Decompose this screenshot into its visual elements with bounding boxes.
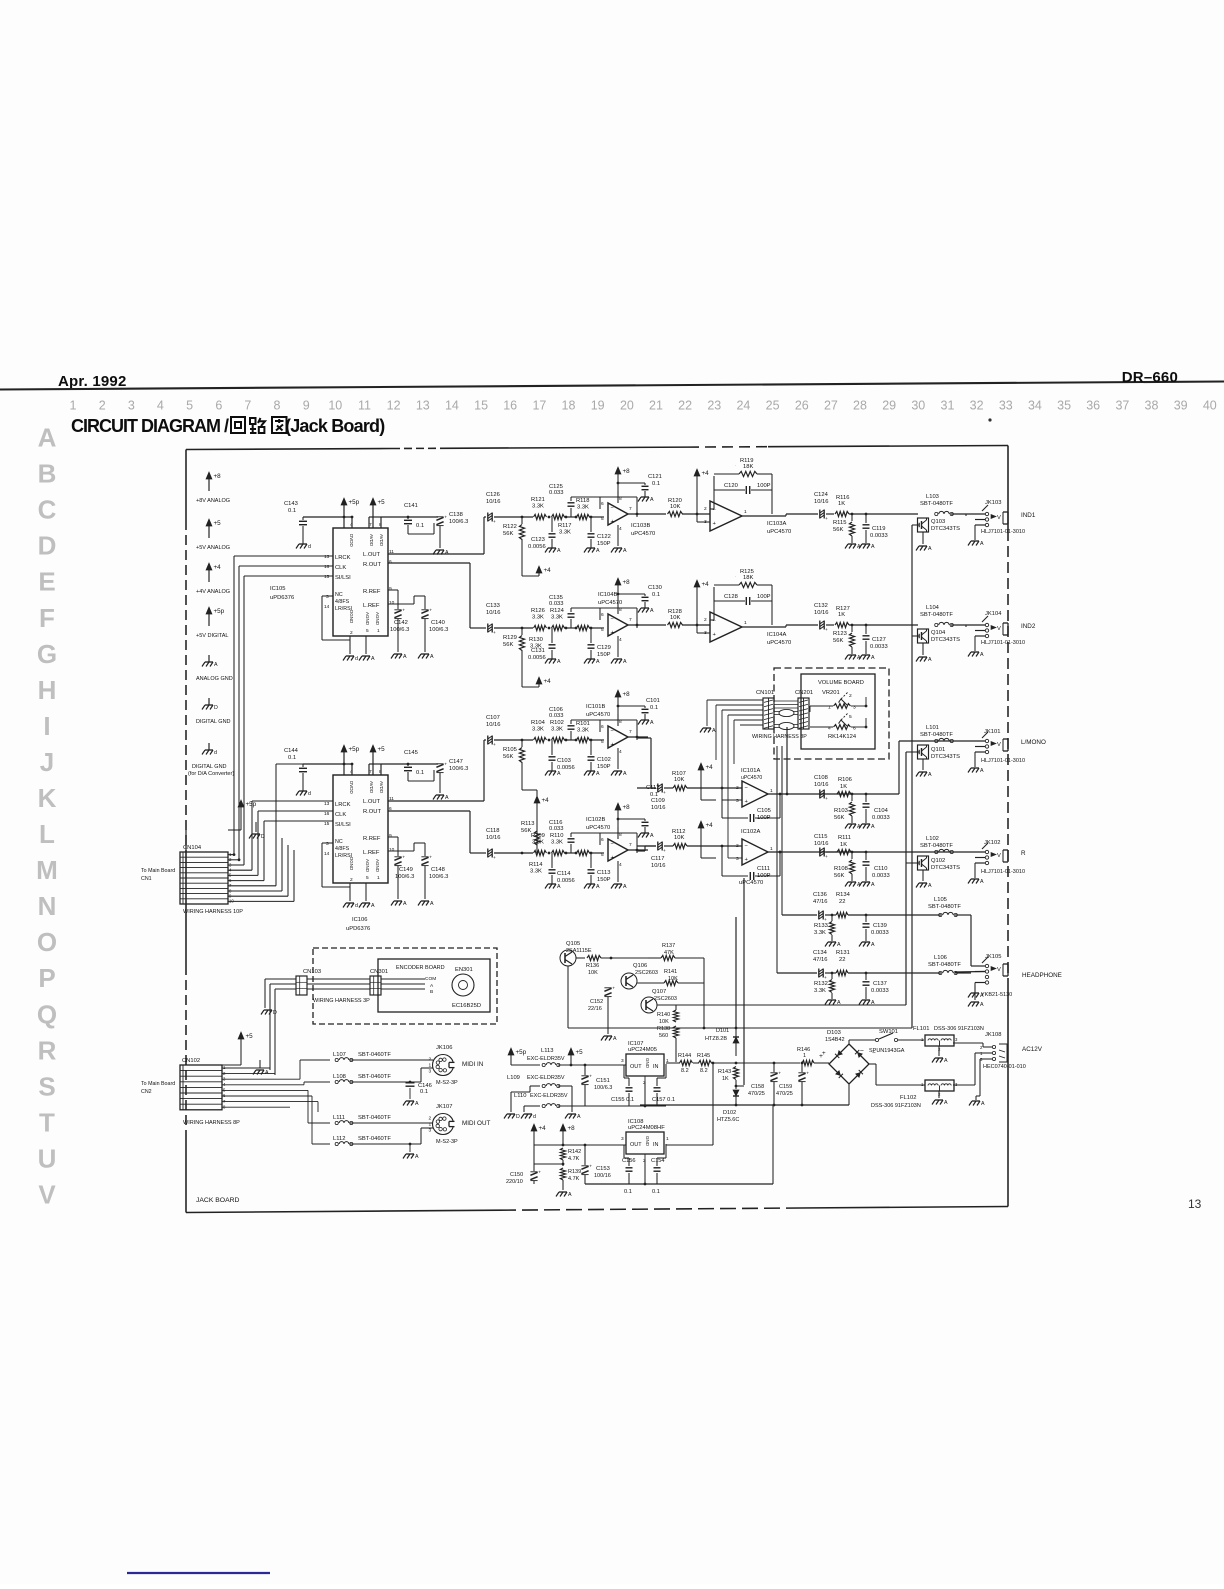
svg-text:A: A xyxy=(650,497,654,503)
svg-text:C157 0.1: C157 0.1 xyxy=(652,1097,675,1103)
svg-text:0.1: 0.1 xyxy=(416,770,424,776)
svg-text:L.REF: L.REF xyxy=(363,603,380,609)
svg-text:10K: 10K xyxy=(670,504,680,510)
svg-text:21: 21 xyxy=(649,399,663,413)
svg-text:d: d xyxy=(355,656,358,662)
svg-text:C141: C141 xyxy=(404,503,418,509)
svg-text:C: C xyxy=(38,495,57,525)
svg-text:C129: C129 xyxy=(597,645,611,651)
svg-text:0.0033: 0.0033 xyxy=(870,533,888,539)
svg-text:47K: 47K xyxy=(664,950,674,956)
svg-text:Q107: Q107 xyxy=(652,989,666,995)
svg-text:O: O xyxy=(37,927,57,957)
svg-text:A: A xyxy=(871,882,875,888)
svg-text:CLK: CLK xyxy=(335,812,346,818)
svg-text:EC16B25D: EC16B25D xyxy=(452,1003,481,1009)
svg-text:+4: +4 xyxy=(702,470,710,477)
svg-text:AGND: AGND xyxy=(375,859,380,873)
svg-text:+: + xyxy=(493,743,496,748)
svg-text:A: A xyxy=(712,728,716,734)
svg-text:EXC-ELDR35V: EXC-ELDR35V xyxy=(527,1056,565,1062)
svg-text:C103: C103 xyxy=(557,758,571,764)
svg-text:+4: +4 xyxy=(544,567,552,574)
svg-text:DGND: DGND xyxy=(349,610,354,624)
svg-text:IC102B: IC102B xyxy=(586,817,605,823)
svg-text:+5: +5 xyxy=(576,1049,584,1056)
svg-text:2: 2 xyxy=(350,877,353,883)
svg-text:R131: R131 xyxy=(836,950,850,956)
svg-text:23: 23 xyxy=(707,399,721,413)
svg-text:IC104A: IC104A xyxy=(767,632,786,638)
svg-text:18K: 18K xyxy=(743,575,753,581)
svg-text:2: 2 xyxy=(99,399,106,413)
svg-text:6: 6 xyxy=(853,726,856,732)
svg-text:A: A xyxy=(430,654,434,660)
svg-text:C153: C153 xyxy=(596,1166,610,1172)
svg-text:100/6.3: 100/6.3 xyxy=(429,627,448,633)
svg-text:A: A xyxy=(596,548,600,554)
svg-text:A: A xyxy=(623,548,627,554)
svg-text:CIRCUIT DIAGRAM /: CIRCUIT DIAGRAM / xyxy=(71,416,229,436)
svg-text:13: 13 xyxy=(416,399,430,413)
svg-text:7: 7 xyxy=(629,842,632,848)
svg-text:L113: L113 xyxy=(541,1048,553,1054)
svg-text:L106: L106 xyxy=(934,955,947,961)
svg-text:8: 8 xyxy=(619,832,622,838)
svg-text:+5: +5 xyxy=(246,1033,254,1040)
svg-text:+: + xyxy=(825,628,828,633)
svg-text:WIRING HARNESS 10P: WIRING HARNESS 10P xyxy=(183,909,243,915)
svg-text:6: 6 xyxy=(389,559,392,565)
svg-text:+8V ANALOG: +8V ANALOG xyxy=(196,498,230,504)
svg-text:HEADPHONE: HEADPHONE xyxy=(1022,972,1062,979)
svg-text:A: A xyxy=(623,884,627,890)
svg-text:1K: 1K xyxy=(840,784,847,790)
svg-text:VOLUME BOARD: VOLUME BOARD xyxy=(818,680,864,686)
svg-text:uPD6376: uPD6376 xyxy=(270,595,294,601)
svg-text:C156: C156 xyxy=(622,1158,636,1164)
svg-text:0.0033: 0.0033 xyxy=(872,815,890,821)
svg-text:0.033: 0.033 xyxy=(549,713,564,719)
svg-text:J: J xyxy=(40,747,54,777)
svg-text:A: A xyxy=(371,903,375,909)
svg-text:4/8FS: 4/8FS xyxy=(335,599,350,605)
svg-text:DTC343TS: DTC343TS xyxy=(931,865,960,871)
svg-text:C158: C158 xyxy=(751,1084,764,1090)
svg-text:32: 32 xyxy=(970,399,984,413)
svg-text:4: 4 xyxy=(619,526,622,532)
svg-text:L101: L101 xyxy=(926,725,939,731)
svg-text:A: A xyxy=(596,771,600,777)
svg-text:10/16: 10/16 xyxy=(814,499,829,505)
svg-text:4: 4 xyxy=(157,399,164,413)
svg-text:A: A xyxy=(871,544,875,550)
svg-text:Q104: Q104 xyxy=(931,630,946,636)
svg-text:3.3K: 3.3K xyxy=(530,869,542,875)
svg-text:3: 3 xyxy=(621,1058,624,1064)
svg-text:CN101: CN101 xyxy=(756,690,774,696)
svg-text:56K: 56K xyxy=(503,531,513,537)
svg-text:R137: R137 xyxy=(662,943,675,949)
svg-text:R.REF: R.REF xyxy=(363,589,381,595)
svg-text:10/16: 10/16 xyxy=(486,722,501,728)
svg-text:3.3K: 3.3K xyxy=(814,988,826,994)
svg-text:0.1: 0.1 xyxy=(652,1189,660,1195)
svg-text:3: 3 xyxy=(128,399,135,413)
svg-text:uPC24M05: uPC24M05 xyxy=(628,1047,657,1053)
svg-text:A: A xyxy=(557,548,561,554)
svg-text:2: 2 xyxy=(350,630,353,636)
svg-text:100/16: 100/16 xyxy=(594,1173,611,1179)
svg-text:2: 2 xyxy=(736,785,739,791)
svg-text:5: 5 xyxy=(601,627,604,633)
svg-text:IC106: IC106 xyxy=(352,917,367,923)
svg-text:31: 31 xyxy=(941,399,955,413)
svg-text:DSS-306 91FZ103N: DSS-306 91FZ103N xyxy=(871,1103,921,1109)
svg-text:25: 25 xyxy=(766,399,780,413)
svg-text:35: 35 xyxy=(1057,399,1071,413)
svg-text:C131: C131 xyxy=(531,648,545,654)
svg-text:+8: +8 xyxy=(623,804,631,811)
svg-text:2SC2603: 2SC2603 xyxy=(635,970,658,976)
svg-text:+5: +5 xyxy=(378,746,386,753)
svg-text:uPC4570: uPC4570 xyxy=(741,775,762,781)
svg-text:29: 29 xyxy=(882,399,896,413)
svg-text:8: 8 xyxy=(619,719,622,725)
svg-text:V: V xyxy=(997,515,1001,521)
svg-text:R145: R145 xyxy=(697,1053,710,1059)
svg-text:C121: C121 xyxy=(648,474,662,480)
svg-text:d: d xyxy=(308,544,311,550)
svg-text:39: 39 xyxy=(1174,399,1188,413)
svg-text:10K: 10K xyxy=(588,970,598,976)
svg-text:10: 10 xyxy=(389,600,395,606)
svg-text:15: 15 xyxy=(474,399,488,413)
svg-text:uPC4570: uPC4570 xyxy=(739,880,763,886)
svg-text:5: 5 xyxy=(186,399,193,413)
svg-text:JK103: JK103 xyxy=(985,500,1001,506)
svg-text:14: 14 xyxy=(445,399,459,413)
svg-text:3: 3 xyxy=(704,630,707,636)
svg-text:C151: C151 xyxy=(596,1078,610,1084)
svg-text:6: 6 xyxy=(601,612,604,618)
svg-text:L109: L109 xyxy=(507,1075,520,1081)
svg-text:220/10: 220/10 xyxy=(506,1179,523,1185)
svg-text:C117: C117 xyxy=(651,856,664,862)
svg-text:27: 27 xyxy=(824,399,838,413)
svg-text:9: 9 xyxy=(389,586,392,592)
svg-text:4: 4 xyxy=(619,749,622,755)
svg-text:11: 11 xyxy=(358,399,371,413)
svg-text:C111: C111 xyxy=(757,866,770,872)
svg-text:0.1: 0.1 xyxy=(416,523,424,529)
svg-text:Q: Q xyxy=(37,999,57,1029)
svg-text:C132: C132 xyxy=(814,603,828,609)
svg-text:SPUN1943GA: SPUN1943GA xyxy=(869,1048,905,1054)
svg-text:A: A xyxy=(430,901,434,907)
svg-text:+4: +4 xyxy=(706,822,714,829)
svg-text:D102: D102 xyxy=(723,1110,736,1116)
svg-text:SBT-0460TF: SBT-0460TF xyxy=(358,1074,391,1080)
svg-text:C122: C122 xyxy=(597,534,611,540)
svg-text:uPC4570: uPC4570 xyxy=(598,600,622,606)
svg-text:18: 18 xyxy=(562,399,576,413)
svg-text:L111: L111 xyxy=(333,1115,345,1121)
svg-text:8.2: 8.2 xyxy=(700,1068,708,1074)
svg-text:AGND: AGND xyxy=(365,612,370,626)
svg-text:2SA1115E: 2SA1115E xyxy=(566,948,592,954)
svg-text:28: 28 xyxy=(853,399,867,413)
svg-text:100P: 100P xyxy=(757,483,771,489)
svg-text:A: A xyxy=(980,1002,984,1008)
svg-text:10K: 10K xyxy=(674,777,684,783)
svg-text:uPC4570: uPC4570 xyxy=(767,529,791,535)
svg-text:C105: C105 xyxy=(757,808,771,814)
svg-text:IC102A: IC102A xyxy=(741,829,760,835)
svg-text:(for D/A Converter): (for D/A Converter) xyxy=(188,771,234,777)
svg-text:10K: 10K xyxy=(668,976,678,982)
svg-text:1: 1 xyxy=(70,399,77,413)
svg-text:12: 12 xyxy=(387,399,401,413)
svg-text:EXC-ELDR35V: EXC-ELDR35V xyxy=(527,1075,565,1081)
svg-text:JK101: JK101 xyxy=(984,729,1000,735)
svg-text:R: R xyxy=(1021,850,1026,857)
svg-text:+: + xyxy=(493,520,496,525)
svg-text:AGND: AGND xyxy=(365,859,370,873)
svg-text:L107: L107 xyxy=(333,1052,346,1058)
svg-text:22: 22 xyxy=(678,399,692,413)
svg-text:+5: +5 xyxy=(214,520,222,527)
svg-text:10/16: 10/16 xyxy=(814,610,829,616)
svg-text:+: + xyxy=(589,1075,592,1080)
svg-text:FL102: FL102 xyxy=(900,1095,916,1101)
svg-text:(Jack Board): (Jack Board) xyxy=(285,416,385,436)
svg-text:10K: 10K xyxy=(659,1019,669,1025)
svg-text:470/25: 470/25 xyxy=(748,1091,765,1097)
svg-text:0.0033: 0.0033 xyxy=(871,930,889,936)
svg-text:A: A xyxy=(415,1154,419,1160)
svg-text:H: H xyxy=(38,675,57,705)
svg-text:A: A xyxy=(944,1100,948,1106)
svg-text:E: E xyxy=(38,567,55,597)
svg-text:GND: GND xyxy=(645,1058,650,1069)
svg-text:56K: 56K xyxy=(833,638,843,644)
svg-text:13: 13 xyxy=(324,554,330,560)
svg-text:R111: R111 xyxy=(838,835,851,841)
svg-text:3: 3 xyxy=(736,856,739,862)
svg-text:R105: R105 xyxy=(503,747,517,753)
svg-text:3.3K: 3.3K xyxy=(551,615,563,621)
svg-text:DR–660: DR–660 xyxy=(1122,369,1178,386)
svg-text:A: A xyxy=(568,1192,572,1198)
svg-text:CN1: CN1 xyxy=(141,876,152,882)
svg-text:4.7K: 4.7K xyxy=(568,1156,580,1162)
svg-text:A: A xyxy=(557,659,561,665)
svg-text:d: d xyxy=(308,791,311,797)
svg-text:SBT-0460TF: SBT-0460TF xyxy=(358,1136,391,1142)
svg-text:10/16: 10/16 xyxy=(814,841,829,847)
svg-text:R141: R141 xyxy=(664,969,677,975)
svg-text:CN301: CN301 xyxy=(370,969,388,975)
svg-text:CN103: CN103 xyxy=(303,969,321,975)
svg-text:+4: +4 xyxy=(539,1125,547,1132)
svg-text:C152: C152 xyxy=(590,999,603,1005)
svg-text:uPC24M08HF: uPC24M08HF xyxy=(628,1125,665,1131)
svg-text:15: 15 xyxy=(324,821,330,827)
svg-text:M-S2-3P: M-S2-3P xyxy=(436,1080,458,1086)
svg-text:R103: R103 xyxy=(834,808,848,814)
svg-text:47/16: 47/16 xyxy=(813,899,828,905)
svg-text:2: 2 xyxy=(429,1116,432,1122)
svg-text:40: 40 xyxy=(1203,399,1217,413)
svg-text:3: 3 xyxy=(621,1136,624,1142)
svg-text:3.3K: 3.3K xyxy=(532,504,544,510)
svg-text:16: 16 xyxy=(324,564,330,570)
svg-text:Q103: Q103 xyxy=(931,519,945,525)
svg-text:L110: L110 xyxy=(514,1093,526,1099)
svg-text:A: A xyxy=(623,659,627,665)
svg-text:56K: 56K xyxy=(834,873,844,879)
svg-text:uPC4570: uPC4570 xyxy=(586,712,610,718)
svg-text:uPD6376: uPD6376 xyxy=(346,926,370,932)
svg-text:S: S xyxy=(38,1071,55,1101)
svg-text:10: 10 xyxy=(328,399,342,413)
svg-text:100P: 100P xyxy=(757,873,771,879)
svg-text:JK102: JK102 xyxy=(984,840,1000,846)
svg-text:C138: C138 xyxy=(449,512,463,518)
svg-text:4: 4 xyxy=(619,862,622,868)
svg-text:+: + xyxy=(663,791,666,796)
svg-text:R139: R139 xyxy=(568,1169,581,1175)
svg-text:A: A xyxy=(980,652,984,658)
svg-text:38: 38 xyxy=(1145,399,1159,413)
svg-text:3.3K: 3.3K xyxy=(577,728,589,734)
svg-text:5: 5 xyxy=(601,739,604,745)
svg-text:R114: R114 xyxy=(529,862,543,868)
svg-text:ANALOG GND: ANALOG GND xyxy=(196,676,233,682)
svg-text:7: 7 xyxy=(629,617,632,623)
svg-text:C118: C118 xyxy=(486,828,499,834)
svg-text:Q102: Q102 xyxy=(931,858,945,864)
svg-text:C159: C159 xyxy=(779,1084,792,1090)
svg-text:A: A xyxy=(445,795,449,801)
svg-text:+: + xyxy=(538,1171,541,1176)
svg-text:R118: R118 xyxy=(576,498,589,504)
svg-text:F: F xyxy=(39,603,55,633)
svg-text:0.0056: 0.0056 xyxy=(557,878,575,884)
svg-text:15: 15 xyxy=(324,574,330,580)
svg-text:+5p: +5p xyxy=(349,746,360,753)
svg-text:Q101: Q101 xyxy=(931,747,945,753)
svg-text:MIDI IN: MIDI IN xyxy=(462,1061,484,1068)
svg-text:1: 1 xyxy=(828,705,831,711)
svg-text:RK14K124: RK14K124 xyxy=(828,734,857,740)
svg-text:4.7K: 4.7K xyxy=(568,1176,580,1182)
svg-text:CN2: CN2 xyxy=(141,1089,152,1095)
svg-text:L102: L102 xyxy=(926,836,939,842)
svg-text:A: A xyxy=(928,883,932,889)
svg-text:C101: C101 xyxy=(646,698,660,704)
svg-text:SBT-0480TF: SBT-0480TF xyxy=(920,732,953,738)
svg-text:NC: NC xyxy=(335,592,343,598)
svg-text:A: A xyxy=(981,1101,985,1107)
svg-text:150P: 150P xyxy=(597,541,611,547)
svg-text:+: + xyxy=(825,855,828,860)
svg-text:L.OUT: L.OUT xyxy=(363,552,381,558)
svg-text:5: 5 xyxy=(601,852,604,858)
svg-text:1: 1 xyxy=(377,628,380,634)
svg-text:CN102: CN102 xyxy=(182,1058,200,1064)
svg-text:D: D xyxy=(261,834,265,840)
svg-text:A: A xyxy=(557,771,561,777)
svg-text:IC101A: IC101A xyxy=(741,768,760,774)
svg-text:R.REF: R.REF xyxy=(363,836,381,842)
svg-text:IC103A: IC103A xyxy=(767,521,786,527)
svg-text:A: A xyxy=(837,1000,841,1006)
svg-text:A: A xyxy=(403,654,407,660)
svg-text:470/25: 470/25 xyxy=(776,1091,793,1097)
svg-text:0.033: 0.033 xyxy=(549,490,564,496)
svg-text:R: R xyxy=(38,1035,57,1065)
svg-text:A: A xyxy=(928,657,932,663)
svg-text:2: 2 xyxy=(736,843,739,849)
svg-text:d: d xyxy=(355,903,358,909)
svg-text:0.1: 0.1 xyxy=(420,1089,428,1095)
svg-text:IND1: IND1 xyxy=(1021,512,1036,519)
svg-text:SBT-0480TF: SBT-0480TF xyxy=(920,501,953,507)
svg-text:B: B xyxy=(430,989,433,995)
svg-text:0.1: 0.1 xyxy=(624,1189,632,1195)
svg-text:WIRING HARNESS 8P: WIRING HARNESS 8P xyxy=(183,1120,240,1126)
svg-text:+: + xyxy=(778,1072,781,1077)
svg-text:HTZ5.6C: HTZ5.6C xyxy=(717,1117,739,1123)
svg-text:DTC343TS: DTC343TS xyxy=(931,526,960,532)
svg-text:16: 16 xyxy=(324,811,330,817)
svg-text:+: + xyxy=(825,517,828,522)
svg-text:100/6.3: 100/6.3 xyxy=(594,1085,612,1091)
svg-text:R121: R121 xyxy=(531,497,545,503)
svg-text:OUT: OUT xyxy=(630,1142,642,1148)
svg-text:B: B xyxy=(38,459,57,489)
svg-text:SI/LSI: SI/LSI xyxy=(335,822,351,828)
svg-text:V: V xyxy=(997,853,1001,859)
svg-text:3: 3 xyxy=(736,798,739,804)
svg-text:+5V DIGITAL: +5V DIGITAL xyxy=(196,633,228,639)
svg-text:+: + xyxy=(444,516,447,521)
svg-text:R123: R123 xyxy=(833,631,847,637)
svg-text:OUT: OUT xyxy=(630,1064,642,1070)
svg-text:+5p: +5p xyxy=(516,1049,527,1056)
svg-text:CLK: CLK xyxy=(335,565,346,571)
svg-text:DIGITAL GND: DIGITAL GND xyxy=(196,719,231,725)
svg-text:7: 7 xyxy=(629,506,632,512)
svg-text:C110: C110 xyxy=(874,866,887,872)
svg-text:3: 3 xyxy=(326,594,329,600)
svg-text:0.0056: 0.0056 xyxy=(528,655,546,661)
svg-text:C114: C114 xyxy=(557,871,571,877)
svg-text:0.1: 0.1 xyxy=(652,592,660,598)
svg-text:20: 20 xyxy=(620,399,634,413)
svg-text:D: D xyxy=(214,705,218,711)
svg-text:C140: C140 xyxy=(431,620,445,626)
svg-text:EXC-ELDR35V: EXC-ELDR35V xyxy=(530,1093,568,1099)
svg-text:A: A xyxy=(596,659,600,665)
svg-text:Apr. 1992: Apr. 1992 xyxy=(58,373,127,390)
svg-text:R104: R104 xyxy=(531,720,546,726)
svg-text:1: 1 xyxy=(803,1053,806,1059)
svg-text:+4V ANALOG: +4V ANALOG xyxy=(196,589,230,595)
svg-text:+4: +4 xyxy=(542,797,550,804)
